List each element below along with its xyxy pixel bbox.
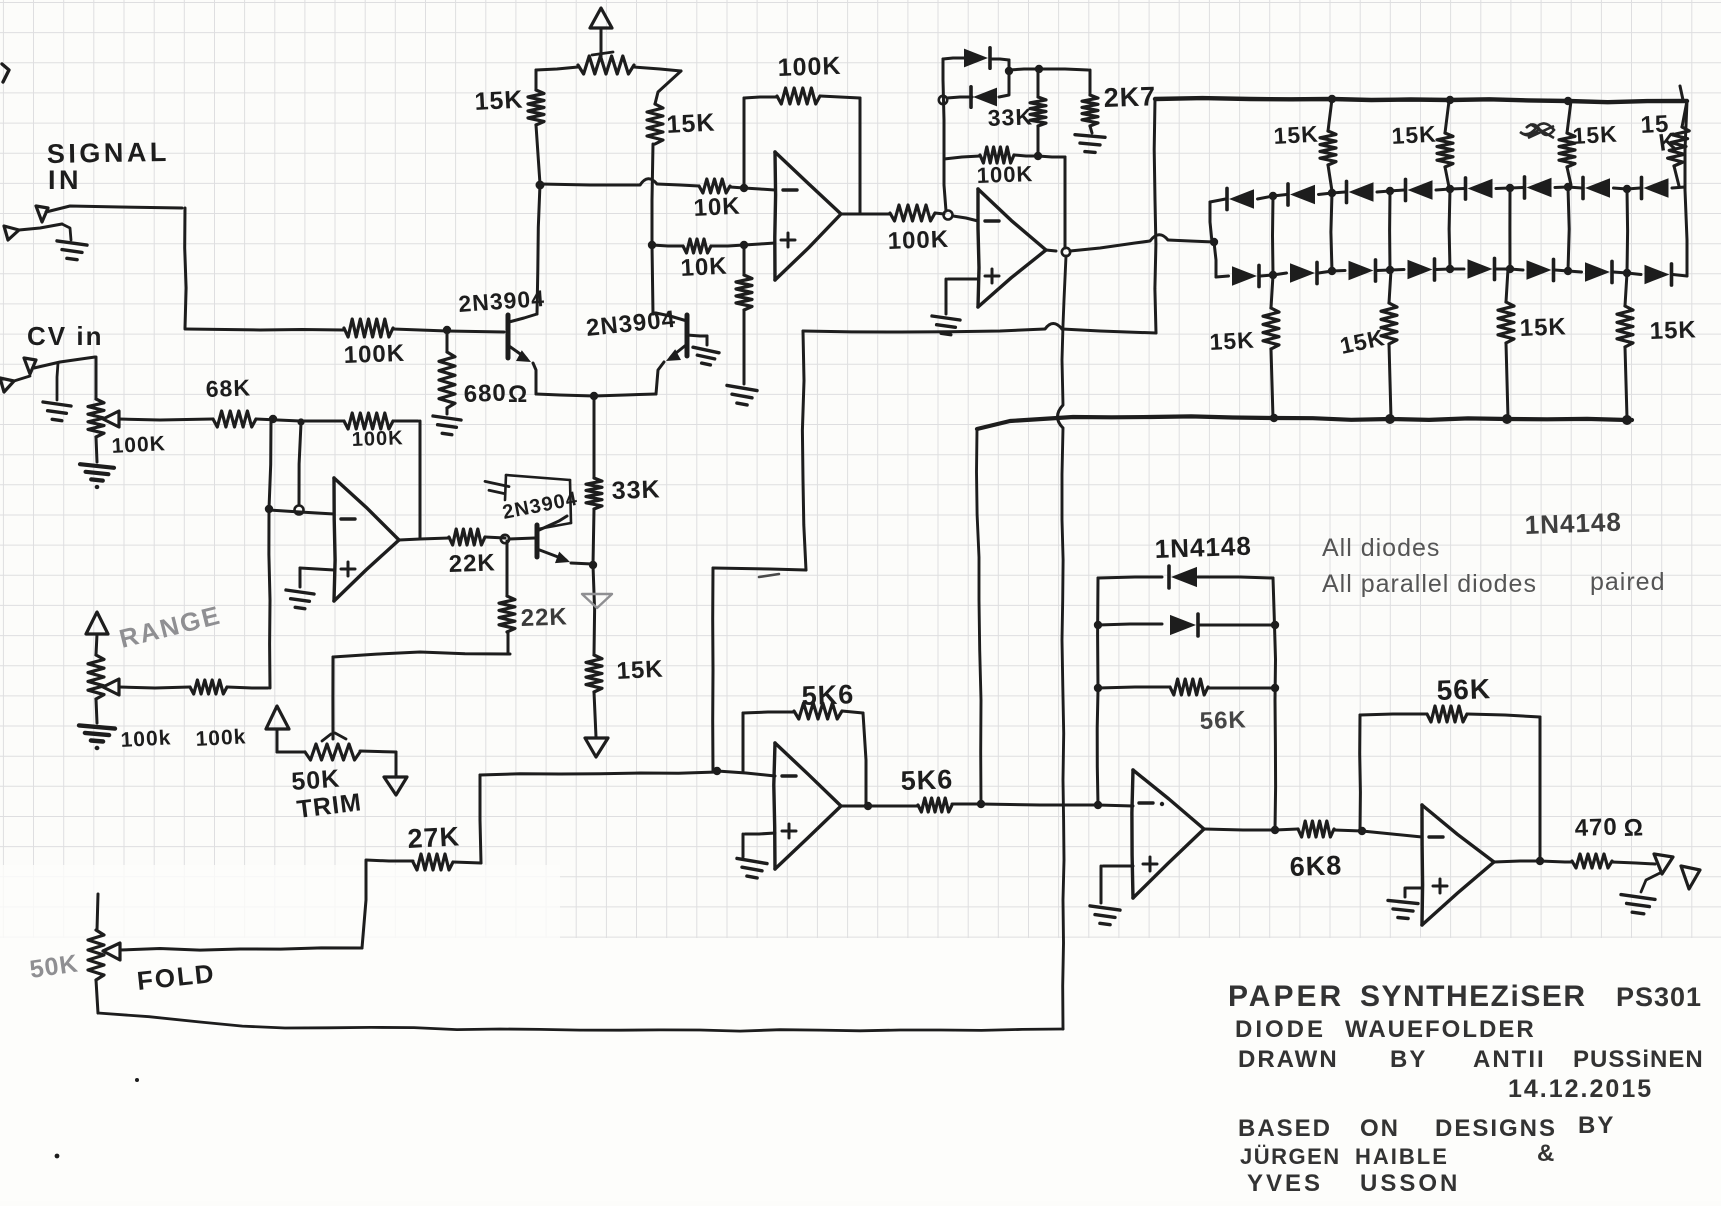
svg-text:All parallel diodes: All parallel diodes [1322,570,1537,598]
svg-text:Ω: Ω [1623,814,1644,842]
svg-text:10K: 10K [680,253,728,282]
svg-text:1N4148: 1N4148 [1154,531,1252,564]
svg-text:BY: BY [1578,1112,1615,1139]
svg-text:15K: 15K [616,656,664,685]
svg-text:ANTII: ANTII [1473,1046,1546,1073]
svg-text:100K: 100K [111,432,166,458]
svg-text:HAIBLE: HAIBLE [1355,1144,1449,1169]
svg-text:10K: 10K [693,193,741,222]
svg-text:BASED: BASED [1238,1115,1332,1142]
svg-text:ON: ON [1360,1115,1400,1142]
svg-text:DIODE: DIODE [1235,1016,1326,1043]
svg-text:100K: 100K [777,52,842,82]
svg-text:15K: 15K [1649,316,1697,345]
svg-text:Ω: Ω [508,381,528,408]
svg-text:100K: 100K [351,427,404,451]
svg-text:IN: IN [48,165,82,195]
svg-text:6K8: 6K8 [1289,850,1343,882]
svg-text:WAUEFOLDER: WAUEFOLDER [1345,1016,1536,1043]
svg-text:DESIGNS: DESIGNS [1435,1115,1557,1142]
svg-text:paired: paired [1590,568,1666,596]
svg-text:15K: 15K [1209,327,1256,355]
svg-text:680: 680 [463,380,507,408]
svg-text:15K: 15K [474,85,524,116]
svg-text:K: K [1657,128,1679,157]
svg-text:15K: 15K [1519,313,1567,342]
svg-text:15K: 15K [1273,121,1320,149]
svg-text:5K6: 5K6 [900,764,954,796]
svg-text:PUSSiNEN: PUSSiNEN [1573,1046,1704,1073]
svg-text:470: 470 [1574,814,1618,842]
svg-text:15K: 15K [666,108,716,139]
svg-text:100K: 100K [976,161,1033,188]
svg-text:22K: 22K [448,549,496,578]
svg-text:14.12.2015: 14.12.2015 [1508,1075,1653,1103]
svg-text:&: & [1537,1140,1555,1167]
svg-text:2K7: 2K7 [1103,81,1157,113]
svg-text:1N4148: 1N4148 [1524,507,1622,540]
svg-text:100K: 100K [343,340,405,369]
svg-text:100K: 100K [887,226,949,255]
svg-text:56K: 56K [1199,706,1247,735]
svg-text:15K: 15K [1572,121,1619,149]
svg-text:PS301: PS301 [1616,982,1702,1012]
svg-text:SYNTHEZiSER: SYNTHEZiSER [1360,980,1587,1013]
svg-text:27K: 27K [407,821,461,854]
svg-text:56K: 56K [1436,673,1491,706]
svg-text:22K: 22K [520,603,568,632]
svg-text:YVES: YVES [1247,1170,1323,1197]
svg-text:CV in: CV in [27,321,103,351]
svg-text:All diodes: All diodes [1322,534,1440,562]
svg-text:PAPER: PAPER [1228,980,1344,1013]
svg-text:BY: BY [1390,1046,1427,1073]
svg-text:5K6: 5K6 [801,679,855,711]
svg-text:USSON: USSON [1360,1170,1460,1197]
svg-text:33K: 33K [611,475,661,505]
svg-text:15K: 15K [1391,121,1438,149]
svg-text:100k: 100k [195,725,247,751]
svg-text:DRAWN: DRAWN [1238,1046,1339,1073]
svg-text:68K: 68K [205,374,251,402]
svg-text:33K: 33K [987,103,1033,131]
svg-text:100k: 100k [120,726,172,752]
svg-text:JÜRGEN: JÜRGEN [1240,1144,1341,1169]
